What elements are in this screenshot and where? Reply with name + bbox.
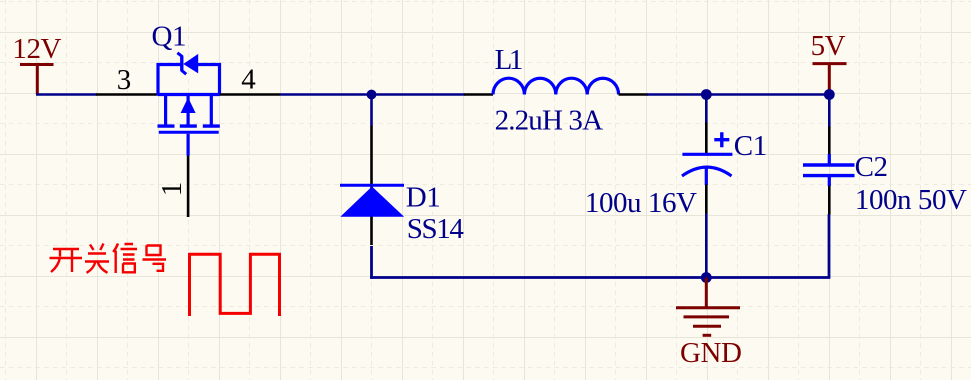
wire node down to C2	[828, 95, 831, 128]
wire Q1 pin4 to node	[280, 93, 465, 96]
wire L1 to 5V rail	[647, 93, 829, 96]
C1 top pin	[705, 123, 708, 154]
node junction at D1 branch	[367, 90, 377, 100]
svg-text:L1: L1	[495, 44, 522, 76]
annotation text 开关信号 (switching signal), drawn as strokes	[50, 244, 167, 274]
capacitor C1 (polarized)	[585, 130, 767, 219]
L1 left pin	[464, 93, 493, 96]
Q1 body diode arrow	[183, 54, 198, 74]
svg-text:SS14: SS14	[407, 213, 465, 245]
inductor L1	[493, 44, 619, 136]
svg-text:4: 4	[241, 63, 256, 95]
ground symbol GND	[676, 278, 741, 369]
Q1 gate stub	[187, 134, 190, 156]
transistor Q1 (P-MOSFET)	[152, 20, 220, 155]
svg-text:3: 3	[117, 64, 132, 96]
D1 cathode pin	[370, 126, 373, 245]
bottom rail wire	[370, 276, 830, 279]
diode D1	[340, 182, 464, 245]
L1 right pin	[619, 93, 648, 96]
node junction at GND	[701, 272, 712, 283]
svg-text:12V: 12V	[12, 33, 61, 65]
pin 4 of Q1	[220, 63, 281, 95]
C1 bottom pin	[705, 185, 708, 214]
wire node down to C1	[705, 95, 708, 124]
Q1 body loop	[158, 65, 220, 96]
Q1 source/drain/bulk stubs	[166, 95, 212, 126]
glyph 关	[85, 244, 109, 273]
svg-text:5V: 5V	[811, 30, 846, 62]
svg-text:GND: GND	[680, 337, 741, 369]
svg-text:2.2uH 3A: 2.2uH 3A	[495, 104, 603, 136]
svg-text:100n 50V: 100n 50V	[855, 184, 967, 216]
svg-text:C1: C1	[734, 130, 767, 162]
wire from 12V to Q1 pin 3	[36, 93, 97, 96]
power symbol 5V	[811, 30, 847, 92]
capacitor C2	[803, 151, 967, 216]
svg-text:D1: D1	[406, 182, 441, 214]
glyph 信	[113, 244, 137, 274]
svg-text:Q1: Q1	[152, 20, 187, 52]
wire node down to D1	[370, 95, 373, 127]
glyph 号	[143, 245, 167, 271]
node junction at C1 branch	[701, 89, 712, 100]
pin 1 of Q1 (gate)	[156, 156, 188, 218]
node junction at 5V / C2 branch	[824, 89, 835, 100]
annotation square wave	[190, 254, 280, 316]
Q1 body diode bar	[177, 53, 186, 74]
svg-text:C2: C2	[855, 151, 888, 183]
wire D1 anode to bottom rail	[370, 246, 373, 279]
power symbol 12V	[12, 33, 61, 94]
pin 3 of Q1	[96, 64, 158, 96]
wire C2 to bottom rail	[828, 214, 831, 277]
glyph 开	[50, 249, 83, 272]
C2 bottom pin	[828, 186, 831, 215]
svg-text:100u 16V: 100u 16V	[585, 187, 697, 219]
wire C1 to bottom rail	[705, 213, 708, 277]
Q1 channel plates	[158, 124, 220, 127]
Q1 channel arrow	[181, 98, 196, 114]
svg-text:1: 1	[156, 182, 188, 197]
C2 top pin	[828, 127, 831, 155]
Q1 gate plate	[159, 131, 219, 134]
